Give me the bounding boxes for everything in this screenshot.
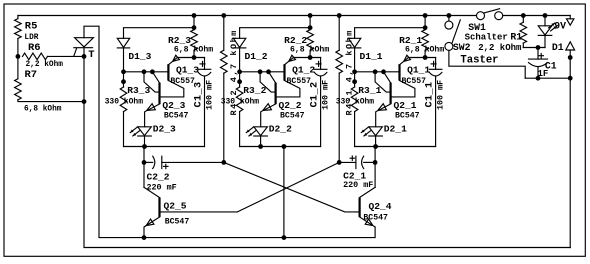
svg-text:BC557: BC557 (402, 77, 427, 86)
svg-text:BC547: BC547 (395, 112, 420, 121)
svg-text:BC557: BC557 (287, 77, 312, 86)
svg-text:SW2: SW2 (453, 42, 471, 53)
wire base drop to Q2_1 (375, 72, 391, 92)
capacitor C2_2 (220 mF) (144, 161, 153, 163)
resistor R2_3 (193, 16, 195, 30)
svg-text:Q2_1: Q2_1 (394, 100, 417, 111)
svg-text:BC547: BC547 (164, 112, 189, 121)
transistor Q2_3 (BC547 npn) (158, 83, 160, 104)
svg-text:220 mF: 220 mF (147, 182, 177, 192)
transistor Q2_2 (BC547 npn) (275, 83, 277, 104)
wire cross coupling Q2_5 base to C2_1 node (diagonal) (237, 162, 339, 212)
svg-text:6,8 kOhm: 6,8 kOhm (290, 45, 329, 55)
svg-text:R4-2 4,7 kOhm: R4-2 4,7 kOhm (229, 29, 239, 115)
wire R2_1 node to emitter and C1_1 (408, 57, 435, 59)
svg-text:D1_3: D1_3 (128, 51, 151, 62)
node junctions on thyristor cathode line (82, 54, 87, 59)
svg-text:Q2_2: Q2_2 (279, 100, 302, 111)
diode D1_1 (348, 38, 360, 47)
svg-text:BC557: BC557 (170, 77, 195, 86)
svg-text:D2_1: D2_1 (384, 124, 407, 135)
svg-text:LDR: LDR (24, 34, 38, 42)
svg-text:R5: R5 (25, 21, 38, 33)
svg-text:Q2_4: Q2_4 (369, 201, 392, 212)
wire base node of stage 1 (355, 71, 400, 73)
led D2_1 (369, 127, 383, 136)
svg-text:330 kOhm: 330 kOhm (221, 98, 260, 107)
resistor R2_1 (424, 16, 426, 30)
svg-text:6,8 kOhm: 6,8 kOhm (405, 45, 444, 55)
node R4-2 / C2_2 / Q2_4 base junction (221, 160, 226, 165)
wire base node of stage 3 (124, 71, 169, 73)
supply arrow 9V (battery positive) (569, 16, 571, 19)
svg-text:SW1: SW1 (468, 22, 486, 33)
resistor R4-2 (4,7 kOhm) (223, 16, 225, 51)
thyristor T (75, 38, 94, 47)
transistor Q1_3 (BC557 pnp) (167, 64, 169, 80)
svg-text:R2_3: R2_3 (168, 35, 191, 46)
wire stage 2 rail drop to inner bottom rail (283, 147, 285, 238)
svg-text:2,2 kOhm: 2,2 kOhm (478, 43, 522, 53)
svg-text:330 kOhm: 330 kOhm (105, 98, 144, 107)
wire stage 1 bottom rail (355, 146, 436, 148)
svg-text:Q1_2: Q1_2 (292, 65, 315, 76)
led D1 (544, 16, 546, 26)
svg-text:C1_3: C1_3 (193, 81, 204, 107)
led D2_2 (254, 127, 268, 136)
svg-text:Taster: Taster (460, 54, 498, 66)
svg-text:R3_2: R3_2 (243, 85, 266, 96)
node on R3_3 lead (121, 79, 126, 84)
wire +9V top bus (SW1 to right end) (503, 15, 570, 17)
svg-text:D1_2: D1_2 (245, 51, 268, 62)
svg-text:9V: 9V (554, 20, 566, 31)
capacitor C1_1 (100 mF) (435, 58, 437, 70)
svg-text:Q1_3: Q1_3 (176, 65, 199, 76)
svg-text:R3_1: R3_1 (358, 85, 381, 96)
svg-text:Q2_5: Q2_5 (164, 201, 187, 212)
svg-text:R1: R1 (510, 31, 522, 42)
wire bottom outer rail (thyristor cathode to battery negative) (84, 48, 570, 248)
svg-text:Q1_1: Q1_1 (407, 65, 430, 76)
transistor Q2_5 (BC547 npn) (144, 187, 160, 197)
svg-text:100 mF: 100 mF (436, 80, 446, 110)
svg-text:Q2_3: Q2_3 (162, 100, 185, 111)
svg-text:Schalter: Schalter (465, 33, 508, 43)
svg-text:BC547: BC547 (165, 217, 190, 226)
svg-text:6,8 kOhm: 6,8 kOhm (174, 45, 213, 55)
svg-text:330 kOhm: 330 kOhm (336, 98, 375, 107)
wire top branch to D1_2 (240, 28, 311, 39)
resistor R3_2 (239, 72, 241, 87)
svg-text:C1_1: C1_1 (425, 81, 436, 107)
svg-text:100 mF: 100 mF (204, 80, 214, 110)
switch SW2 (Taster) (448, 16, 450, 22)
transistor Q1_2 (BC557 pnp) (283, 64, 285, 80)
svg-text:D1: D1 (552, 42, 564, 53)
node junctions on +9V bus (192, 13, 197, 18)
node C2_1 right / D2_1 / Q2_4 collector junction (373, 160, 378, 165)
led D2_3 (138, 127, 152, 136)
wire R2_3 node to emitter and C1_3 (177, 57, 204, 59)
node on R3_1 lead (352, 79, 357, 84)
svg-text:220 mF: 220 mF (343, 180, 373, 190)
svg-text:R6: R6 (28, 42, 41, 54)
svg-text:D1_1: D1_1 (360, 51, 383, 62)
thyristor gate lead (74, 48, 77, 56)
svg-text:R4-1 4,7 kOhm: R4-1 4,7 kOhm (344, 29, 354, 115)
wire SW2 to C1 bottom node (449, 51, 525, 79)
wire +9V top bus (left part, to SW1) (18, 15, 477, 17)
node on right rail (568, 55, 573, 60)
resistor R5 (LDR) (17, 16, 19, 19)
resistor R3_3 (123, 72, 125, 87)
svg-text:C1_2: C1_2 (310, 81, 321, 107)
wire R2_2 node to emitter and C1_2 (293, 57, 320, 59)
transistor Q2_4 (BC547 npn) (360, 187, 376, 197)
wire stage 3 bottom rail (124, 146, 205, 148)
svg-text:BC547: BC547 (280, 112, 305, 121)
svg-text:R7: R7 (25, 69, 38, 81)
transistor Q2_1 (BC547 npn) (390, 83, 392, 104)
svg-text:R2_1: R2_1 (399, 35, 422, 46)
wire base drop to Q2_3 (144, 72, 160, 92)
wire base drop to Q2_2 (260, 72, 276, 92)
capacitor C1_3 (100 mF) (204, 58, 206, 70)
wire top branch to D1_1 (355, 28, 426, 39)
wire top branch to D1_3 (124, 28, 195, 39)
switch SW1 contacts and lever (477, 12, 485, 20)
wire stage 2 bottom rail (240, 146, 321, 148)
capacitor C1 (1F) (537, 48, 539, 60)
svg-text:6,8 kOhm: 6,8 kOhm (24, 106, 62, 114)
wire base node of stage 2 (240, 71, 285, 73)
capacitor C2_1 (220 mF) (339, 161, 356, 163)
diode D1_3 (117, 38, 129, 47)
node R4-1 / C2_1 / Q2_5 base junction (337, 160, 342, 165)
svg-text:R3_3: R3_3 (127, 85, 150, 96)
svg-text:BC547: BC547 (363, 213, 388, 222)
resistor R4-1 (4,7 kOhm) (338, 16, 340, 51)
diode D1_2 (233, 38, 245, 47)
supply arrow (battery negative, up arrow) (566, 42, 575, 50)
svg-text:2,2 kOhm: 2,2 kOhm (26, 61, 64, 69)
resistor R6 (23, 53, 48, 60)
resistor R1 (522, 16, 524, 23)
svg-text:C2_2: C2_2 (147, 172, 170, 183)
resistor R3_1 (354, 72, 356, 87)
svg-text:R2_2: R2_2 (284, 35, 307, 46)
wire right rail from negative arrow down to bottom rail (569, 50, 571, 248)
transistor Q1_1 (BC557 pnp) (398, 64, 400, 80)
node junctions on inner bottom rail (142, 235, 147, 240)
wire R6 to thyristor (48, 55, 85, 57)
svg-text:D2_3: D2_3 (153, 124, 176, 135)
svg-text:100 mF: 100 mF (321, 80, 331, 110)
wire R1 and D1 bottoms (523, 47, 545, 49)
resistor R2_2 (309, 16, 311, 30)
wire D2_1 cathode down through C2_1 node to Q2_4 collector (374, 147, 376, 188)
wire C1 bottom to right rail (525, 77, 570, 79)
node on R3_2 lead (237, 79, 242, 84)
wire thyristor anode loop and inner bottom rail (84, 26, 375, 237)
svg-text:T: T (88, 49, 94, 61)
capacitor C1_2 (100 mF) (320, 58, 322, 70)
svg-text:D2_2: D2_2 (269, 124, 292, 135)
resistor R7 (17, 56, 19, 78)
wire cross coupling C2_2 node to Q2_4 base (diagonal) (224, 162, 360, 212)
wire D2_3 cathode down to C2_2 node and Q2_5 collector (143, 147, 145, 188)
